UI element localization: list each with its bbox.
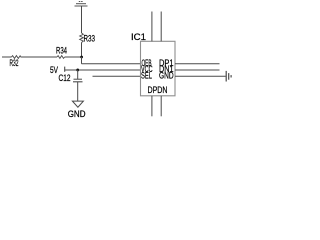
wire: DPDN bottom 2 xyxy=(160,96,162,117)
svg-text:R33: R33 xyxy=(84,33,96,44)
wire: R34 to junction xyxy=(65,56,82,58)
supply rail symbol (top, above R33) xyxy=(75,2,88,7)
wire: SEL pin xyxy=(93,75,141,77)
wire: to OE# pin xyxy=(82,63,141,65)
earth ground (rotated, right) xyxy=(226,71,231,82)
wire: junction down to C12 xyxy=(77,70,79,79)
wire: DPDN bottom 1 xyxy=(151,96,153,117)
svg-text:R32: R32 xyxy=(10,57,19,68)
wire: DP top xyxy=(151,12,153,42)
resistor R33 (vertical zigzag) xyxy=(80,33,84,43)
wire: DN top xyxy=(160,12,162,42)
capacitor C12 xyxy=(74,78,83,80)
svg-text:IC1: IC1 xyxy=(131,31,146,42)
5V supply terminal tick xyxy=(64,67,66,72)
wire: C12 to ground xyxy=(77,82,79,101)
wire: R33 to junction xyxy=(81,43,83,58)
svg-text:C12: C12 xyxy=(59,72,71,83)
resistor R32 (horizontal zigzag) xyxy=(12,56,21,59)
IC1 box xyxy=(141,41,176,96)
wire: DP1 right xyxy=(175,63,220,65)
svg-text:GND: GND xyxy=(159,70,174,81)
wire: 5V to VCC pin xyxy=(65,69,141,71)
wire: supply to R33 xyxy=(81,6,83,33)
wire: jog down to OE# row xyxy=(81,57,83,64)
svg-text:R34: R34 xyxy=(56,44,67,55)
wire: GND right xyxy=(175,75,226,77)
wire: R32 to R34 xyxy=(21,56,57,58)
wire: DN1 right xyxy=(175,69,220,71)
junction dot (R32/R34/R33/OE# net) xyxy=(80,56,83,59)
resistor R34 (horizontal zigzag) xyxy=(57,56,65,59)
junction dot (5V/C12 net) xyxy=(76,69,79,72)
svg-text:GND: GND xyxy=(68,108,86,119)
svg-text:SEL: SEL xyxy=(141,70,152,81)
svg-text:5V: 5V xyxy=(50,64,59,75)
ground symbol (triangle) xyxy=(72,101,83,107)
svg-text:DPDN: DPDN xyxy=(148,84,168,95)
wire: left net, R32 segment xyxy=(2,56,12,58)
